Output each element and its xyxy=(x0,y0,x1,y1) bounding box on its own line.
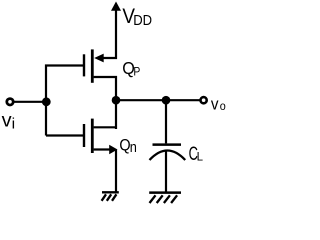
svg-text:Qn: Qn xyxy=(119,136,136,155)
svg-text:L: L xyxy=(197,152,204,164)
